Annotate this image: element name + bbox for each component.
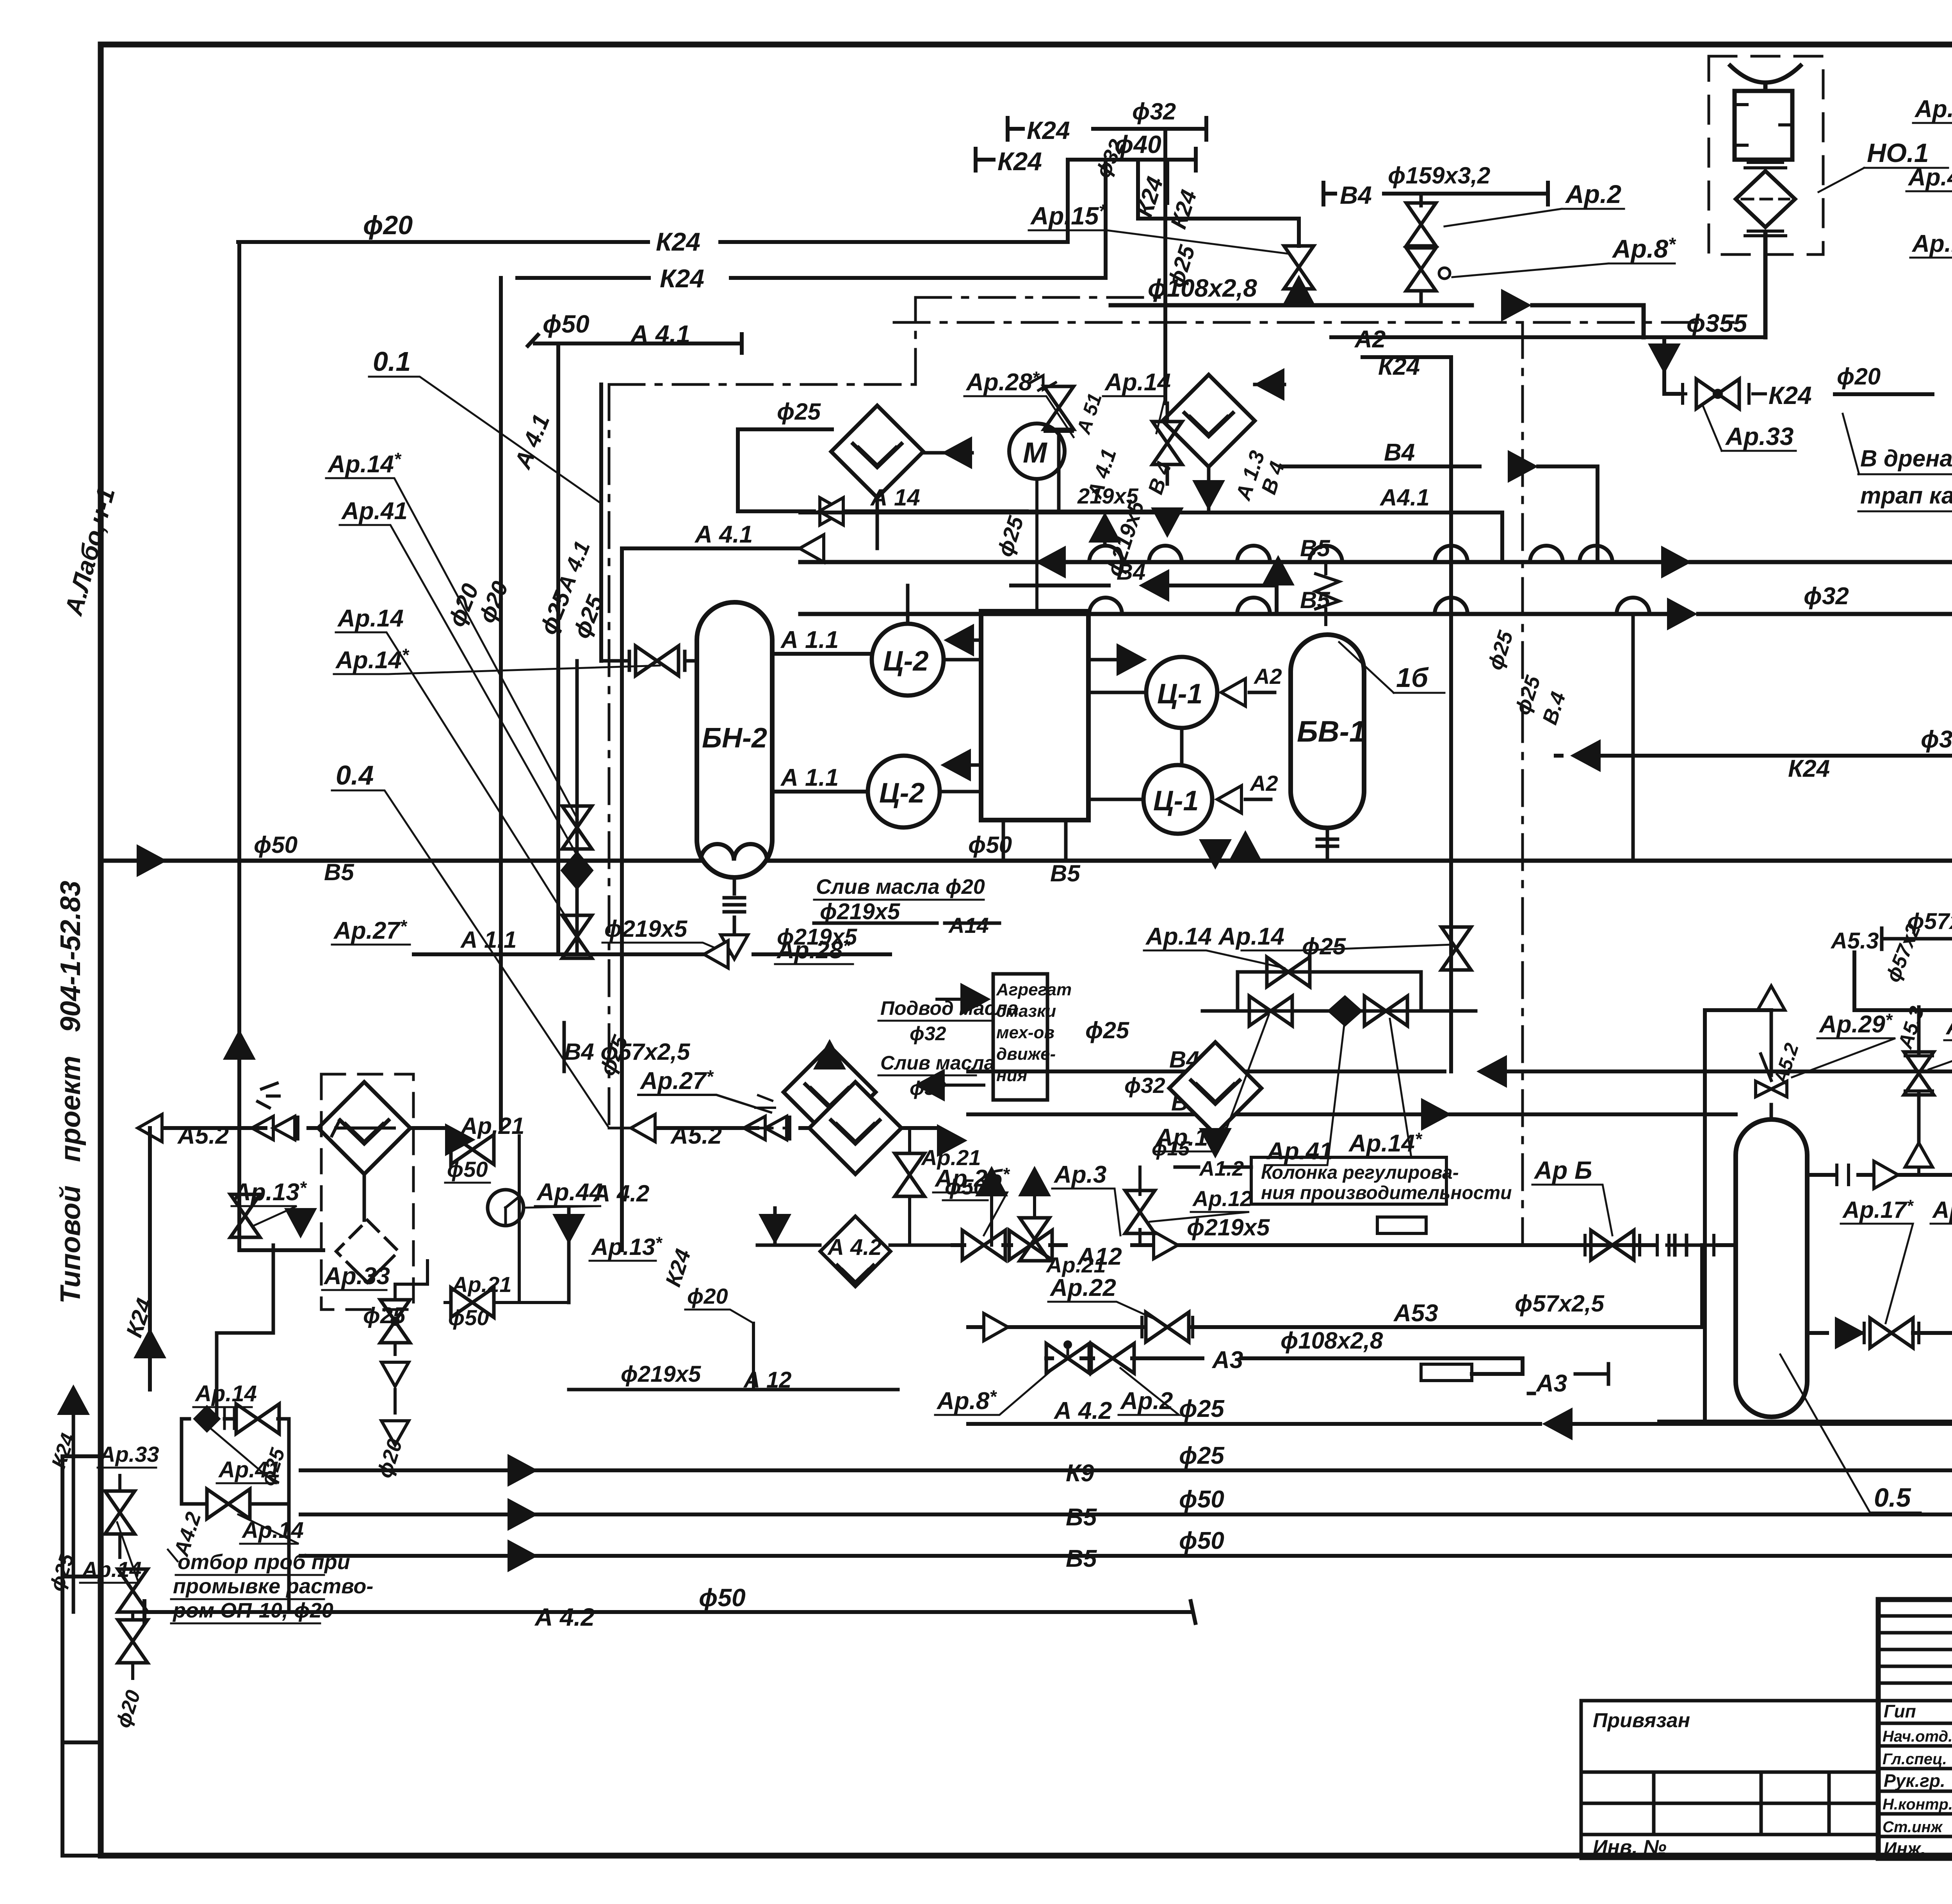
svg-text:Нач.отд.: Нач.отд. xyxy=(1883,1728,1952,1745)
valve Ар.14* on А4.1 xyxy=(601,646,697,676)
indicator А1.2 rect xyxy=(1377,1217,1426,1233)
svg-text:К24: К24 xyxy=(1027,116,1070,144)
svg-text:Гип: Гип xyxy=(1884,1701,1916,1721)
svg-text:Ар.28*: Ар.28* xyxy=(965,368,1040,396)
column А5.3 Ар.23 xyxy=(1917,1007,1921,1144)
svg-text:Рук.гр.: Рук.гр. xyxy=(1884,1771,1945,1791)
svg-text:К24: К24 xyxy=(1788,755,1830,782)
pipe А53 xyxy=(968,1245,1702,1327)
vessel 0.5 top stem + Ар.29* xyxy=(1770,1010,1773,1119)
heat exchanger А5.2 left xyxy=(318,1082,410,1174)
svg-text:ϕ32: ϕ32 xyxy=(1132,98,1176,125)
arrow А4.2 down xyxy=(552,1214,585,1244)
pipe left loop at vessel xyxy=(1705,1010,1771,1421)
svg-text:Ар.22: Ар.22 xyxy=(1049,1274,1116,1301)
wire riser x4183 xyxy=(1631,614,1635,861)
К24 vertical left with up arrow xyxy=(148,1128,152,1390)
svg-text:ϕ32: ϕ32 xyxy=(1124,1073,1165,1098)
pipe К9 φ25 long xyxy=(301,1460,1952,1480)
wire φ25 vertical xyxy=(599,384,603,661)
wire Ц-1 connectors xyxy=(1088,660,1146,799)
pipe К24 φ32 stub xyxy=(1008,118,1299,403)
svg-text:Ар.27*: Ар.27* xyxy=(639,1066,714,1094)
valve black diamond Ар.41 xyxy=(561,851,593,890)
dashed diamond left xyxy=(363,1174,366,1220)
valve Ар.15* xyxy=(1297,289,1301,305)
svg-text:мех-ов: мех-ов xyxy=(996,1023,1054,1042)
vessel БВ-1 xyxy=(1291,635,1364,828)
svg-text:К24: К24 xyxy=(1769,381,1812,409)
svg-text:Ар.12: Ар.12 xyxy=(1192,1186,1252,1211)
valve Ар.21 small lower xyxy=(1020,1218,1049,1261)
black arrows machine extras xyxy=(1151,507,1184,538)
svg-text:А 4.1: А 4.1 xyxy=(694,521,753,548)
svg-text:В4 ϕ57х2,5: В4 ϕ57х2,5 xyxy=(564,1039,691,1065)
valve Ар.13* left xyxy=(230,1194,260,1237)
svg-text:Ар.29*: Ар.29* xyxy=(1818,1010,1893,1038)
svg-text:ϕ50: ϕ50 xyxy=(447,1157,488,1182)
compressor Ц-1 lower xyxy=(1143,765,1212,834)
contour 0.1 dash-dot xyxy=(609,297,1733,1128)
dashed enclosure left xyxy=(321,1074,413,1310)
svg-text:Ар.33: Ар.33 xyxy=(99,1442,159,1466)
svg-text:Колонка регулирова-: Колонка регулирова- xyxy=(1261,1162,1459,1183)
svg-text:Ар.27*: Ар.27* xyxy=(333,916,408,944)
svg-text:А 4.2: А 4.2 xyxy=(593,1180,649,1206)
svg-text:Ар.33: Ар.33 xyxy=(323,1263,390,1290)
valve cluster Ар.14 Ар.41 Ар.14 center xyxy=(1202,972,1476,1011)
valve row lower pair xyxy=(182,1502,289,1506)
device НО.1 dashed enclosure xyxy=(1709,56,1823,254)
pipe А3 φ108x2.8 xyxy=(1046,1358,1523,1374)
svg-text:0.1: 0.1 xyxy=(373,346,411,377)
pipe А1.2 from vessel xyxy=(1807,1173,1952,1177)
svg-text:Ар.14: Ар.14 xyxy=(194,1381,257,1406)
svg-text:Ар.43: Ар.43 xyxy=(1907,164,1952,191)
svg-text:ϕ32: ϕ32 xyxy=(1921,726,1952,753)
svg-text:ϕ108х2,8: ϕ108х2,8 xyxy=(1281,1327,1383,1354)
svg-text:Ар.41: Ар.41 xyxy=(1266,1138,1333,1165)
pipe К24 φ32 drain from funnel xyxy=(1556,754,1952,758)
svg-text:Ар.17*: Ар.17* xyxy=(1842,1196,1914,1223)
heat exchanger А5.2 right xyxy=(809,1082,901,1174)
svg-text:ϕ57х2,5: ϕ57х2,5 xyxy=(1907,909,1952,934)
svg-text:А14: А14 xyxy=(948,913,989,938)
svg-text:1б: 1б xyxy=(1396,662,1429,693)
svg-text:М: М xyxy=(1023,436,1047,469)
svg-text:ϕ50: ϕ50 xyxy=(254,832,297,858)
valve Ар Б на А12 xyxy=(1591,1230,1634,1260)
svg-text:Ар.13*: Ар.13* xyxy=(591,1233,663,1260)
svg-text:А 1.1: А 1.1 xyxy=(780,626,839,653)
svg-text:А 1.1: А 1.1 xyxy=(780,764,839,791)
wire К24 drop xyxy=(752,1323,755,1390)
valve Ар.21 right column xyxy=(895,1153,924,1196)
pipe В4 return xyxy=(968,952,1952,1071)
svg-text:Ц-2: Ц-2 xyxy=(883,646,929,677)
pipe К24/φ40 header xyxy=(976,149,1196,171)
svg-text:А3: А3 xyxy=(1211,1347,1243,1374)
pipe В5 φ50 long xyxy=(105,859,1952,863)
arrow down into box xyxy=(284,1208,317,1238)
svg-text:ϕ32: ϕ32 xyxy=(910,1023,946,1045)
svg-text:А1.2: А1.2 xyxy=(1199,1157,1244,1180)
svg-text:Привязан: Привязан xyxy=(1593,1709,1690,1732)
compressor Ц-2 upper xyxy=(872,624,944,696)
svg-text:Ар.41: Ар.41 xyxy=(341,498,408,525)
pipe φ108x2.8 xyxy=(1111,305,1644,337)
svg-text:ния производительности: ния производительности xyxy=(1261,1183,1512,1203)
svg-text:В дренажный: В дренажный xyxy=(1860,445,1952,472)
svg-text:А2: А2 xyxy=(1249,771,1278,795)
wire vertical from φ20 line xyxy=(237,242,241,1128)
svg-text:ϕ159х3,2: ϕ159х3,2 xyxy=(1388,162,1490,189)
svg-text:Ар.8*: Ар.8* xyxy=(936,1386,997,1415)
svg-text:Ар.14: Ар.14 xyxy=(337,605,404,632)
compressor Ц-2 lower xyxy=(868,756,940,827)
svg-text:А2: А2 xyxy=(1253,664,1282,689)
pipe А12 center xyxy=(953,1243,1736,1247)
svg-text:ϕ25: ϕ25 xyxy=(1302,933,1346,959)
svg-text:Инж.: Инж. xyxy=(1884,1838,1926,1859)
К24 up arrow lowest xyxy=(57,1384,90,1415)
svg-text:ϕ20: ϕ20 xyxy=(1837,363,1881,390)
svg-text:В5: В5 xyxy=(1066,1545,1097,1572)
svg-text:ϕ219х5: ϕ219х5 xyxy=(621,1361,701,1387)
wire left risers to long pipes xyxy=(300,1245,301,1556)
hop bumps on В5 at vessel xyxy=(701,844,767,861)
valve Ар.21 left xyxy=(451,1135,494,1164)
device НО.1 bell xyxy=(1730,66,1801,91)
heat exchanger machine bottom-left xyxy=(784,1046,876,1138)
svg-text:ϕ50: ϕ50 xyxy=(448,1305,489,1330)
svg-text:Ар.14*: Ар.14* xyxy=(327,449,402,478)
device НО.1 tank xyxy=(1735,91,1792,160)
svg-text:А 4.2: А 4.2 xyxy=(1053,1397,1112,1424)
svg-text:Ар.14: Ар.14 xyxy=(1932,1197,1952,1223)
black up arrows pair right xyxy=(975,1166,1008,1196)
pipe φ25 small bottom-left xyxy=(217,1333,566,1333)
svg-text:ϕ15: ϕ15 xyxy=(1152,1137,1190,1160)
svg-text:ϕ108х2,8: ϕ108х2,8 xyxy=(1148,274,1257,302)
svg-text:В4: В4 xyxy=(1340,181,1372,209)
wire К24 valve column xyxy=(575,661,579,954)
svg-text:А5.2: А5.2 xyxy=(177,1122,229,1149)
wire φ355 vertical xyxy=(1763,234,1768,337)
compressor Ц-1 upper xyxy=(1146,657,1217,728)
svg-text:К24: К24 xyxy=(656,227,700,256)
svg-text:ϕ355: ϕ355 xyxy=(1687,309,1748,337)
svg-text:Слив масла: Слив масла xyxy=(880,1052,995,1074)
wire φ50 vertical xyxy=(556,343,560,954)
svg-text:Ар.28*: Ар.28* xyxy=(776,936,851,964)
svg-text:промывке раство-: промывке раство- xyxy=(173,1575,373,1598)
svg-text:Ар.23: Ар.23 xyxy=(1945,1013,1952,1040)
svg-text:БН-2: БН-2 xyxy=(702,722,767,754)
А2 stubs at Ц-1 xyxy=(1221,679,1245,706)
svg-text:А2: А2 xyxy=(1354,326,1386,353)
pipe А14 xyxy=(839,509,1027,513)
svg-text:Ар.2: Ар.2 xyxy=(1565,180,1621,208)
pipe А4.1 top xyxy=(622,546,820,550)
svg-text:А5.2: А5.2 xyxy=(670,1122,722,1149)
valve К24 drain xyxy=(1679,384,1765,403)
left margin box 2 xyxy=(62,1577,102,1742)
svg-text:НО.1: НО.1 xyxy=(1867,138,1929,168)
svg-text:Ар.8*: Ар.8* xyxy=(1612,234,1676,263)
привязан table xyxy=(1581,1701,1878,1858)
svg-text:движе-: движе- xyxy=(996,1045,1056,1064)
svg-text:Ар.15*: Ар.15* xyxy=(1030,201,1107,230)
svg-text:В5: В5 xyxy=(1050,860,1081,886)
machine internal connectors xyxy=(1003,728,1182,861)
svg-text:К24: К24 xyxy=(997,147,1042,176)
svg-text:трап канала: трап канала xyxy=(1860,482,1952,509)
pipe А4.1 φ50 stub xyxy=(528,334,742,353)
wire А4.1 left vertical xyxy=(620,548,624,1250)
vessel БВ-1 bottom stem xyxy=(1317,828,1338,861)
svg-text:А 4.2: А 4.2 xyxy=(827,1235,882,1260)
left margin box 3 xyxy=(62,1742,102,1856)
box Агрегат смазки xyxy=(993,974,1047,1100)
pipe φ25 from vessel bottom right xyxy=(1659,1333,1952,1422)
pipe А1.2 stub to box xyxy=(1175,1166,1251,1169)
svg-text:Ц-2: Ц-2 xyxy=(879,778,925,809)
valve Ар.28* relief xyxy=(1031,375,1056,390)
valve column Ар.33 mid xyxy=(394,1284,397,1354)
vessel БН-2 bottom stem xyxy=(724,877,744,954)
dash-dot machine boundary lower xyxy=(609,1127,800,1130)
svg-text:Ар.19: Ар.19 xyxy=(1911,230,1952,257)
svg-text:Слив масла ϕ20: Слив масла ϕ20 xyxy=(816,875,985,899)
svg-text:В5: В5 xyxy=(324,859,354,885)
svg-text:А4.1: А4.1 xyxy=(1379,484,1430,511)
arrow black up on Ар.15 branch xyxy=(1282,275,1315,305)
pipe В5 φ50 long lower xyxy=(301,1554,1952,1558)
wire К24 φ25 vertical xyxy=(1165,160,1169,203)
svg-text:Ар.14: Ар.14 xyxy=(1104,369,1171,396)
svg-text:ϕ25: ϕ25 xyxy=(1085,1017,1130,1043)
arrow black down to drain valve xyxy=(1648,343,1681,374)
svg-text:А53: А53 xyxy=(1393,1300,1438,1327)
svg-text:Ар Б: Ар Б xyxy=(1533,1156,1592,1184)
svg-text:Ар.21: Ар.21 xyxy=(460,1113,524,1139)
svg-text:Ц-1: Ц-1 xyxy=(1153,785,1199,817)
pipe 219x5 stub xyxy=(1027,431,1167,511)
svg-text:А3: А3 xyxy=(1535,1370,1567,1397)
solid diamond right lower xyxy=(820,1216,891,1287)
svg-text:К9: К9 xyxy=(1066,1460,1094,1487)
wire К24 riser left xyxy=(499,278,503,1128)
valve Ар.14* vertical pair xyxy=(562,806,592,849)
bundle pipe В5 no1 xyxy=(800,560,1952,564)
pipe К24 branch xyxy=(1362,357,1451,1071)
dash-dot boundary vertical right xyxy=(1521,322,1524,1245)
pipe А5.2 left xyxy=(158,1126,330,1130)
svg-text:Ар.13*: Ар.13* xyxy=(233,1178,307,1206)
valve Ар.21 left lower xyxy=(451,1288,494,1317)
svg-text:А 14: А 14 xyxy=(870,484,920,511)
svg-text:ϕ50: ϕ50 xyxy=(699,1584,746,1612)
svg-text:А12: А12 xyxy=(1077,1243,1122,1270)
svg-text:А5.3: А5.3 xyxy=(1830,928,1879,954)
valve Ар.14 lower xyxy=(562,915,592,958)
pipe А1.1 long xyxy=(414,952,890,956)
device НО.1 filter diamond xyxy=(1736,171,1795,227)
svg-text:Инв. №: Инв. № xyxy=(1593,1836,1667,1859)
pipe В4 φ159x3.2 xyxy=(1323,162,1548,209)
svg-text:ϕ25: ϕ25 xyxy=(363,1303,406,1328)
svg-text:Типовой проект 904-1-52.83: Типовой проект 904-1-52.83 xyxy=(55,881,86,1304)
title block outer xyxy=(1878,1600,1952,1858)
pipe В4 local over block xyxy=(1011,585,1277,611)
pipe В5 φ50 long upper xyxy=(301,1513,1952,1516)
svg-text:К24: К24 xyxy=(1378,353,1420,380)
svg-text:Агрегат: Агрегат xyxy=(996,980,1072,999)
svg-text:Ц-1: Ц-1 xyxy=(1157,678,1203,710)
motor М xyxy=(1009,424,1065,479)
title block texts xyxy=(1593,1613,1952,1859)
svg-text:Ар.3: Ар.3 xyxy=(1053,1161,1106,1188)
pipe А4.2 φ50 bottom xyxy=(144,1601,1195,1623)
vessel БН-2 xyxy=(697,602,772,877)
svg-text:А 1.1: А 1.1 xyxy=(460,927,516,953)
svg-text:Ар.2: Ар.2 xyxy=(1120,1388,1173,1415)
vessel 0.5 xyxy=(1736,1119,1807,1417)
compressor Ар.44 circle left xyxy=(488,1190,524,1226)
heat exchanger machine bottom-right xyxy=(1169,1042,1261,1134)
compressor block xyxy=(981,611,1088,820)
svg-text:ния: ния xyxy=(996,1066,1027,1085)
black arrows at HX top-left xyxy=(942,436,972,469)
svg-text:Ар.21: Ар.21 xyxy=(451,1272,512,1297)
riser wires across bundle xyxy=(1111,429,1597,1114)
valve Ар.8* xyxy=(1406,248,1436,291)
valve row Ар.14/Ар.41 bottom-left xyxy=(182,1419,289,1504)
svg-text:ϕ219х5: ϕ219х5 xyxy=(1187,1214,1270,1240)
svg-text:Ар.14*: Ар.14* xyxy=(335,645,410,674)
колонка регулирования box xyxy=(1251,1157,1446,1204)
svg-text:К24: К24 xyxy=(660,264,704,293)
svg-text:ϕ20: ϕ20 xyxy=(687,1284,728,1308)
wire big left vertical lower xyxy=(239,1128,323,1250)
svg-text:0.4: 0.4 xyxy=(336,760,374,790)
svg-text:ϕ50: ϕ50 xyxy=(1179,1527,1224,1554)
pipe φ20/К24 top xyxy=(238,160,1068,242)
svg-text:Ар.33: Ар.33 xyxy=(1725,422,1793,450)
svg-text:А 4.1: А 4.1 xyxy=(630,320,690,348)
spring symbol 16 xyxy=(1316,562,1339,625)
device НО.1 joint xyxy=(1745,162,1786,168)
svg-text:Ар.14 Ар.14: Ар.14 Ар.14 xyxy=(1145,923,1284,950)
svg-text:Ар.44: Ар.44 xyxy=(536,1179,603,1206)
svg-text:ϕ50: ϕ50 xyxy=(1179,1486,1224,1513)
valve Ар.2 xyxy=(1419,194,1423,206)
wire down from В4 corner xyxy=(1839,952,1854,953)
wire Ц-2 to block connectors xyxy=(908,585,981,792)
wire drop from А4.2 mid to bottom xyxy=(217,1245,273,1419)
heat exchanger HX top-left xyxy=(831,406,923,498)
valve column Ар.33 bottom left xyxy=(118,1475,121,1557)
valve Ар.14 on К24 φ25 drop xyxy=(1166,403,1169,422)
svg-text:ϕ50: ϕ50 xyxy=(543,310,590,338)
svg-text:ϕ219х5: ϕ219х5 xyxy=(820,899,900,924)
signature table xyxy=(1878,1600,1952,1858)
heat exchanger HX top-right xyxy=(1163,375,1255,467)
pipe А5.3 header xyxy=(1882,928,1952,949)
svg-text:А 4.2: А 4.2 xyxy=(534,1603,595,1631)
svg-text:ϕ25: ϕ25 xyxy=(1179,1395,1225,1422)
pipe А5.2 right xyxy=(651,1126,809,1130)
svg-text:БВ-1: БВ-1 xyxy=(1297,715,1366,748)
svg-text:ϕ25: ϕ25 xyxy=(1179,1442,1225,1469)
bundle pipe В5 no2 φ32 xyxy=(800,558,1952,614)
bundle pipe А4.1 xyxy=(800,512,1502,562)
pipe А1.1 upper xyxy=(772,652,872,656)
pipe upper middle А12 line y3560 xyxy=(569,1388,898,1392)
pipe А4.2 mid xyxy=(757,1244,953,1247)
valve Ар.27-type spring left xyxy=(252,1083,298,1140)
pipe А4.2 φ25 long xyxy=(968,1422,1952,1426)
svg-text:ϕ25: ϕ25 xyxy=(777,399,821,425)
svg-text:В4: В4 xyxy=(1384,439,1415,466)
svg-text:А 12: А 12 xyxy=(743,1367,792,1393)
svg-text:Ар.2б*: Ар.2б* xyxy=(934,1164,1010,1192)
svg-text:Гл.спец.: Гл.спец. xyxy=(1883,1751,1947,1768)
pipe В4 branch xyxy=(1281,466,1598,562)
pipe В5 to vessel xyxy=(968,1112,1736,1116)
arrow black right on φ108 xyxy=(1501,289,1532,322)
hop bumps on В5 bundle xyxy=(1089,546,1612,562)
pipe А2 xyxy=(1331,335,1765,339)
svg-text:ϕ57х2,5: ϕ57х2,5 xyxy=(1515,1290,1605,1317)
svg-text:ϕ50: ϕ50 xyxy=(968,832,1012,858)
svg-text:В5: В5 xyxy=(1066,1504,1097,1531)
svg-text:ϕ20: ϕ20 xyxy=(363,210,413,240)
pipe К24 second xyxy=(517,160,1106,278)
svg-text:ϕ32: ϕ32 xyxy=(1804,583,1849,610)
black arrows cluster near М xyxy=(1088,512,1121,543)
svg-text:Ст.инж: Ст.инж xyxy=(1883,1819,1943,1836)
left margin box 1 xyxy=(62,1456,102,1577)
wire В4 riser from block xyxy=(563,1023,566,1071)
svg-text:Ар.19: Ар.19 xyxy=(1914,96,1952,123)
svg-text:0.5: 0.5 xyxy=(1874,1483,1911,1513)
svg-text:ϕ219х5: ϕ219х5 xyxy=(604,916,688,942)
pipe А1.1 lower xyxy=(772,790,868,794)
svg-text:Н.контр.: Н.контр. xyxy=(1883,1796,1952,1813)
